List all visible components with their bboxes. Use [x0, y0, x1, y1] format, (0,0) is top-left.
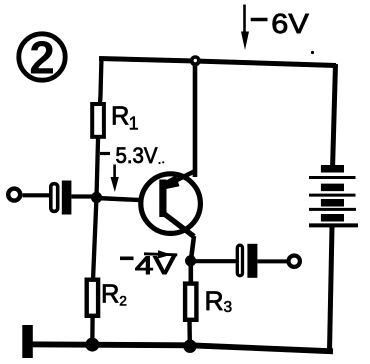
- svg-text:2: 2: [119, 294, 127, 309]
- svg-text:R: R: [101, 280, 119, 308]
- svg-text:R: R: [205, 286, 224, 316]
- svg-text:6V: 6V: [271, 8, 309, 39]
- svg-text:R: R: [111, 102, 129, 130]
- svg-text:5.3V: 5.3V: [116, 143, 158, 168]
- svg-text:2: 2: [29, 32, 55, 84]
- svg-text:4V: 4V: [135, 252, 176, 280]
- svg-text:1: 1: [129, 114, 139, 134]
- svg-text:3: 3: [224, 299, 233, 316]
